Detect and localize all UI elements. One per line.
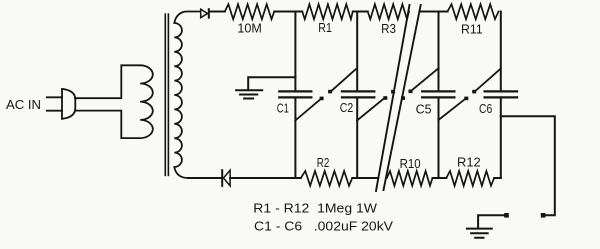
svg-text:C6: C6 bbox=[479, 101, 492, 116]
capacitor C1 top lead bbox=[294, 12, 296, 91]
capacitor C6 bottom lead bbox=[500, 99, 502, 179]
wire bottom rail: R10 to R12 (node C5 bottom) bbox=[433, 177, 447, 179]
plug P1 prongs bbox=[47, 97, 62, 110]
resistor R3 bbox=[368, 4, 409, 19]
wire top rail: R1 to R3 (node C2 top) bbox=[353, 11, 368, 13]
svg-text:R3: R3 bbox=[381, 21, 396, 36]
plug P1 body bbox=[62, 89, 75, 119]
resistor R10 bbox=[387, 171, 433, 186]
wire output gap to ground bbox=[478, 215, 504, 228]
output gap left electrode bbox=[504, 213, 509, 218]
resistor 10M bbox=[225, 4, 274, 19]
spark gap G4 upper arm to C6 bbox=[476, 69, 500, 90]
svg-text:R11: R11 bbox=[461, 22, 483, 37]
spark gap G1 upper electrode bbox=[328, 90, 332, 94]
capacitor C2 top lead bbox=[356, 12, 358, 91]
svg-text:AC IN: AC IN bbox=[6, 97, 41, 112]
spark gap G4 lower electrode bbox=[464, 97, 468, 101]
wire bottom rail: transformer to diode D2 bbox=[188, 177, 221, 179]
diode D2 (bottom rectifier, points left) bbox=[224, 170, 231, 186]
resistor R1 bbox=[302, 4, 353, 19]
spark gap G4 upper electrode bbox=[472, 90, 476, 94]
capacitor C2 bottom lead bbox=[356, 99, 358, 179]
wire C6 output lead bbox=[501, 116, 555, 215]
capacitor C2 plates bbox=[342, 91, 374, 97]
capacitor C1 plates bbox=[279, 91, 311, 97]
svg-text:C1: C1 bbox=[277, 101, 289, 116]
wire top rail: diode to 10M bbox=[210, 11, 225, 13]
wire top rail: 10M to R1 (node C1 top) bbox=[274, 11, 302, 13]
ground symbol (output) bbox=[467, 229, 492, 238]
spark gap G3 upper arm to C5 bbox=[412, 68, 438, 89]
capacitor C1 bottom lead bbox=[294, 99, 296, 179]
spark gap G1 lower electrode bbox=[320, 97, 324, 101]
spark gap G2 lower electrode bbox=[383, 96, 387, 100]
output gap right electrode bbox=[541, 213, 546, 218]
svg-text:C1 - C6 .002uF 20kV: C1 - C6 .002uF 20kV bbox=[254, 219, 393, 234]
svg-text:R2: R2 bbox=[317, 155, 330, 170]
spark gap G3 upper electrode bbox=[409, 90, 413, 94]
svg-text:R12: R12 bbox=[457, 155, 481, 170]
svg-text:R1: R1 bbox=[318, 20, 332, 35]
spark gap G2 upper electrode bbox=[391, 90, 395, 94]
wire bottom rail: R12 to C6 corner bbox=[494, 177, 501, 179]
capacitor C6 top lead bbox=[500, 12, 502, 91]
break mark line (left) bbox=[376, 5, 410, 191]
capacitor C5 bottom lead bbox=[438, 99, 440, 179]
spark gap G2 lower arm from C2 bbox=[357, 99, 384, 121]
wire bottom rail: R2 to break (node C2 bottom) bbox=[352, 177, 378, 179]
transformer T1 secondary winding bbox=[174, 12, 221, 179]
transformer T1 core bbox=[165, 14, 168, 175]
capacitor C5 plates bbox=[422, 91, 454, 97]
wire plug cord / transformer T1 primary outline bbox=[75, 65, 153, 138]
resistor R2 bbox=[301, 171, 353, 186]
svg-text:10M: 10M bbox=[237, 21, 262, 36]
ground symbol (charging) bbox=[236, 90, 262, 98]
wire top rail: break to R11 (node C5 top) bbox=[421, 11, 448, 13]
capacitor C5 top lead bbox=[438, 12, 440, 91]
wire bottom rail: diode to R2 (node C1 bottom) bbox=[230, 177, 301, 179]
wire charging ground stub bbox=[248, 77, 295, 89]
spark gap G4 lower arm from C5 bbox=[439, 100, 465, 120]
svg-text:R1 - R12 1Meg 1W: R1 - R12 1Meg 1W bbox=[253, 201, 377, 216]
svg-text:C5: C5 bbox=[416, 101, 432, 116]
spark gap G1 lower arm from C1 bbox=[295, 100, 320, 121]
spark gap G1 upper arm to C2 bbox=[332, 69, 356, 90]
capacitor C6 plates bbox=[485, 91, 517, 97]
break mark line (right) bbox=[384, 5, 421, 190]
svg-text:R10: R10 bbox=[400, 156, 421, 171]
diode D1 (top rectifier) bbox=[201, 9, 208, 18]
resistor R11 bbox=[448, 4, 499, 19]
resistor R12 bbox=[446, 171, 494, 186]
svg-text:C2: C2 bbox=[340, 100, 353, 115]
spark gap G3 lower electrode bbox=[401, 96, 405, 100]
